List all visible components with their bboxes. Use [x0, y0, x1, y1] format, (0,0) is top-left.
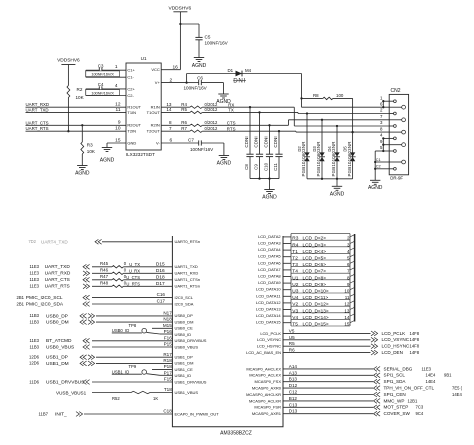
C3 value label	[86, 71, 120, 77]
svg-text:U1: U1	[292, 275, 298, 281]
svg-text:14F8: 14F8	[410, 344, 420, 349]
svg-text:LCD_PCLK: LCD_PCLK	[260, 331, 281, 336]
capacitor C6	[184, 75, 224, 94]
svg-text:0/2012: 0/2012	[205, 120, 218, 125]
svg-text:TPH_VH_ON_OFF_CTL: TPH_VH_ON_OFF_CTL	[384, 386, 435, 391]
node LCD_DATA2 row	[258, 234, 354, 242]
svg-text:6: 6	[347, 262, 350, 267]
svg-text:100NF/16V: 100NF/16V	[184, 86, 208, 91]
svg-text:4: 4	[347, 249, 350, 254]
svg-text:T5: T5	[292, 322, 298, 328]
svg-text:USB0_DM: USB0_DM	[175, 319, 194, 324]
node LCD_DATA6 row	[258, 260, 354, 268]
svg-text:4: 4	[115, 83, 118, 89]
svg-text:R5: R5	[289, 341, 295, 346]
svg-text:R3: R3	[87, 143, 93, 148]
svg-text:USB0_ID: USB0_ID	[112, 328, 129, 333]
svg-text:D15: D15	[156, 262, 165, 268]
svg-text:LCD_D<3>: LCD_D<3>	[303, 242, 327, 247]
svg-text:LCD_D<8>: LCD_D<8>	[303, 275, 327, 280]
wire VCC16 riser	[161, 24, 180, 70]
net USB0_DM	[30, 317, 194, 326]
svg-text:MMC_WP: MMC_WP	[384, 398, 405, 403]
svg-text:UART1_RXD: UART1_RXD	[175, 271, 199, 276]
capacitor C7	[161, 138, 224, 156]
svg-text:C7: C7	[188, 138, 194, 143]
svg-text:C18: C18	[163, 409, 172, 414]
svg-text:USB1_DRVVBUS: USB1_DRVVBUS	[175, 379, 207, 384]
svg-text:LCD_HSYNC: LCD_HSYNC	[382, 344, 411, 349]
net MOT_STEP	[254, 402, 424, 409]
svg-text:10: 10	[344, 289, 350, 294]
resistor R45 (UART_TXD row)	[30, 261, 198, 270]
svg-text:F16: F16	[164, 335, 172, 340]
svg-text:U5: U5	[289, 335, 295, 340]
svg-text:7: 7	[169, 126, 172, 131]
net INIT_	[39, 409, 220, 418]
svg-text:AGND: AGND	[330, 192, 345, 198]
svg-text:UART_TXD: UART_TXD	[26, 107, 49, 112]
net USB1_DM	[29, 358, 193, 367]
CN2 shield pin C2	[374, 165, 396, 170]
svg-text:10: 10	[115, 126, 121, 132]
svg-text:14E4: 14E4	[426, 379, 436, 384]
svg-text:U_TX: U_TX	[129, 262, 140, 267]
svg-text:7C3: 7C3	[416, 405, 424, 410]
svg-text:R2OUT: R2OUT	[127, 123, 141, 128]
svg-text:USB0_ID: USB0_ID	[175, 332, 192, 337]
svg-text:C11: C11	[273, 163, 278, 171]
svg-text:AGND: AGND	[217, 160, 232, 166]
svg-text:T2IN: T2IN	[127, 129, 136, 134]
ground AGND (R3)	[75, 166, 90, 177]
wire CN2 pin5 ground	[375, 151, 389, 180]
svg-text:USB1_DP: USB1_DP	[175, 355, 194, 360]
svg-text:LCD_D<15>: LCD_D<15>	[303, 322, 329, 327]
net LCD_HSYNC	[257, 341, 420, 348]
svg-text:LCD_DATA4: LCD_DATA4	[258, 247, 281, 252]
svg-text:B12: B12	[289, 396, 298, 401]
TVS diode D4 PGB1010603NR	[327, 125, 340, 179]
net LCD_DEN	[246, 348, 420, 355]
svg-text:I2C0_SDA: I2C0_SDA	[175, 301, 194, 306]
svg-text:LCD_DATA15: LCD_DATA15	[256, 320, 282, 325]
svg-text:1K: 1K	[153, 396, 158, 401]
svg-text:LCD_DATA12: LCD_DATA12	[256, 300, 282, 305]
svg-text:USB0_DP: USB0_DP	[175, 313, 194, 318]
net COVER_SW	[252, 409, 424, 416]
svg-text:12D6: 12D6	[29, 361, 40, 366]
svg-text:100NF/16V: 100NF/16V	[205, 41, 229, 46]
svg-text:T2OUT: T2OUT	[147, 129, 161, 134]
svg-text:7: 7	[347, 269, 350, 274]
node LCD_DATA7 row	[258, 267, 354, 275]
svg-text:USB0_CE: USB0_CE	[175, 326, 194, 331]
svg-text:11B3: 11B3	[30, 344, 40, 349]
svg-text:R45: R45	[100, 261, 109, 266]
svg-text:P16: P16	[164, 329, 173, 334]
svg-text:UART1_RTSn: UART1_RTSn	[175, 284, 200, 289]
svg-text:LCD_DEN: LCD_DEN	[382, 350, 403, 355]
svg-text:LCD_D<11>: LCD_D<11>	[303, 295, 329, 300]
svg-text:C5: C5	[205, 35, 211, 40]
svg-text:14E4: 14E4	[426, 373, 436, 378]
svg-text:12B1: 12B1	[408, 398, 418, 403]
node LCD_DATA9 row	[258, 280, 354, 288]
CN2 pin numbers	[380, 95, 383, 150]
resistor R8	[302, 93, 353, 100]
svg-text:UART4_TXD: UART4_TXD	[41, 239, 68, 244]
capacitor C4	[86, 82, 126, 95]
svg-text:V4: V4	[292, 315, 298, 321]
svg-text:C9: C9	[254, 164, 259, 170]
svg-text:DR-9F: DR-9F	[390, 175, 403, 180]
svg-text:SPI1_SDA: SPI1_SDA	[384, 379, 407, 384]
svg-text:DNI: DNI	[233, 77, 246, 84]
svg-text:11E3: 11E3	[30, 277, 40, 282]
svg-text:LCD_DATA14: LCD_DATA14	[256, 313, 282, 318]
svg-text:D18: D18	[156, 275, 165, 281]
net SPI1_SCL	[249, 370, 452, 377]
svg-text:P18: P18	[164, 364, 173, 369]
svg-text:T1OUT: T1OUT	[147, 110, 161, 115]
svg-text:100NF/16V/X: 100NF/16V/X	[91, 90, 114, 95]
node LCD_DATA13 row	[256, 307, 355, 315]
power VDDSHV6 net (top)	[169, 5, 192, 24]
net BT_ATCMD	[30, 335, 207, 344]
node LCD_DATA5 row	[258, 254, 354, 262]
net UART_RXD	[26, 102, 127, 107]
svg-text:V2: V2	[292, 302, 298, 308]
resistor R52 / net VUSB_VBUS1	[56, 387, 198, 401]
svg-text:MCASP0_AXR0: MCASP0_AXR0	[252, 386, 282, 391]
processor AM3358BZCZ body	[172, 236, 283, 436]
svg-text:C13: C13	[289, 402, 298, 407]
svg-text:10K: 10K	[76, 95, 85, 100]
U1 pin names	[127, 67, 160, 145]
svg-text:UART_CTS: UART_CTS	[45, 277, 70, 283]
svg-text:MCASP0_ACLKR: MCASP0_ACLKR	[249, 398, 281, 403]
capacitor C5	[195, 35, 228, 58]
svg-text:1: 1	[115, 64, 118, 70]
svg-text:D16: D16	[156, 268, 165, 274]
net USB0_VBUS	[30, 342, 199, 351]
svg-text:MCASP0_AHCLKR: MCASP0_AHCLKR	[246, 392, 281, 397]
net USB1_DP	[29, 352, 193, 361]
svg-text:MCASP0_AHCLKX: MCASP0_AHCLKX	[246, 366, 281, 371]
svg-text:M4: M4	[245, 68, 252, 73]
svg-text:C1+: C1+	[127, 68, 135, 73]
wire R2 to RTS	[67, 98, 69, 132]
C4 value label	[86, 90, 120, 96]
svg-text:LCD_DATA13: LCD_DATA13	[256, 307, 282, 312]
net UART_CTS	[26, 120, 127, 125]
ground AGND (C8-C11)	[262, 179, 277, 201]
svg-text:MCASP0_FSX: MCASP0_FSX	[255, 379, 282, 384]
bus LCD_D vertical	[354, 234, 356, 322]
svg-text:MCASP0_FSR: MCASP0_FSR	[254, 405, 281, 410]
svg-text:LCD_D<4>: LCD_D<4>	[303, 249, 327, 254]
svg-text:LCD_VSYNC: LCD_VSYNC	[382, 337, 410, 342]
svg-text:D17: D17	[156, 281, 165, 287]
net PMIC_I2C0_SCL	[17, 292, 194, 301]
svg-text:ECAP0_IN_PWM0_OUT: ECAP0_IN_PWM0_OUT	[175, 411, 220, 416]
net UART4_TXD (off-page)	[28, 239, 200, 244]
svg-text:B13: B13	[289, 377, 298, 382]
net RTS	[202, 126, 389, 132]
U1 pin numbers	[115, 64, 178, 144]
IC U1 ILX3232TSDT body	[126, 56, 161, 157]
net LCD_VSYNC	[257, 335, 420, 342]
svg-text:USB0_DRVVBUS: USB0_DRVVBUS	[175, 338, 207, 343]
svg-text:C1: C1	[376, 158, 381, 162]
svg-text:LCD_D<12>: LCD_D<12>	[303, 302, 329, 307]
svg-text:V-: V-	[156, 140, 160, 145]
svg-text:LCD_D<14>: LCD_D<14>	[303, 315, 329, 320]
ground AGND (C7)	[217, 156, 232, 167]
svg-text:13: 13	[344, 308, 350, 313]
svg-text:P15: P15	[164, 342, 173, 347]
svg-text:14F8: 14F8	[410, 350, 420, 355]
svg-text:U4: U4	[292, 295, 298, 301]
svg-text:V3: V3	[292, 308, 298, 314]
resistor R7	[161, 126, 218, 133]
resistor R3	[81, 124, 96, 165]
net TPH_VH_ON_OFF_CTL	[252, 383, 463, 390]
svg-text:R46: R46	[100, 267, 109, 272]
svg-text:R17: R17	[163, 352, 172, 357]
svg-text:3: 3	[347, 242, 350, 247]
node LCD_DATA3 row	[258, 241, 354, 249]
svg-text:T2: T2	[292, 256, 298, 262]
capacitor C9 (DNI)	[254, 111, 263, 178]
svg-text:R52: R52	[112, 396, 120, 401]
svg-text:11E3: 11E3	[30, 264, 40, 269]
wire C5 branch	[180, 24, 199, 37]
node LCD_DATA15 row	[256, 320, 355, 328]
svg-text:F15: F15	[164, 377, 172, 382]
svg-text:C6: C6	[197, 75, 203, 80]
svg-text:LCD_DATA6: LCD_DATA6	[258, 260, 281, 265]
svg-text:VDDSHV6: VDDSHV6	[57, 57, 80, 63]
svg-text:U_RX: U_RX	[129, 268, 140, 273]
net USB0_DP	[30, 311, 194, 320]
svg-text:C8: C8	[244, 164, 249, 170]
node LCD_DATA8 row	[258, 274, 354, 282]
svg-text:15: 15	[115, 137, 121, 143]
node LCD_DATA12 row	[256, 300, 355, 308]
svg-text:AGND: AGND	[75, 170, 90, 176]
resistor R4	[161, 102, 218, 109]
svg-text:AGND: AGND	[192, 63, 207, 69]
svg-text:C2-: C2-	[127, 93, 134, 98]
net CTS	[202, 121, 288, 126]
wire USB1_CE stub	[152, 364, 193, 372]
svg-text:CDNI: CDNI	[264, 136, 269, 147]
net UART_RTS	[26, 126, 127, 131]
svg-text:CTS: CTS	[227, 121, 236, 126]
svg-text:A14: A14	[289, 364, 298, 369]
svg-text:R47: R47	[100, 274, 109, 279]
svg-text:11E3: 11E3	[30, 284, 40, 289]
net SERIAL_DBG	[246, 364, 431, 371]
svg-text:SERIAL_DBG: SERIAL_DBG	[384, 366, 413, 371]
resistor R5	[161, 107, 218, 114]
svg-text:10K: 10K	[87, 149, 96, 154]
svg-text:TX: TX	[228, 108, 234, 113]
TVS diode D3 PGB1010603NR	[312, 119, 325, 179]
svg-text:PMIC_I2C0_SDA: PMIC_I2C0_SDA	[26, 302, 64, 308]
svg-text:TP9: TP9	[129, 364, 137, 369]
svg-text:C17: C17	[157, 299, 166, 304]
wire TVS ground bus	[307, 178, 353, 180]
node LCD_DATA11 row	[256, 293, 354, 301]
node LCD_DATA14 row	[256, 313, 355, 321]
svg-text:T1IN: T1IN	[127, 110, 136, 115]
svg-text:I2C0_SCL: I2C0_SCL	[175, 295, 194, 300]
svg-text:BT_ATCMD: BT_ATCMD	[46, 338, 72, 344]
svg-text:PGB1010603NR: PGB1010603NR	[316, 141, 321, 176]
svg-text:U1: U1	[141, 56, 147, 61]
svg-text:R7: R7	[181, 126, 187, 131]
svg-text:USB1_CE: USB1_CE	[175, 367, 194, 372]
svg-text:PGB1010603NR: PGB1010603NR	[331, 141, 336, 176]
svg-text:AGND: AGND	[100, 158, 115, 164]
wire R8 to pin8 line	[351, 98, 353, 133]
svg-text:R48: R48	[100, 280, 109, 285]
svg-text:16: 16	[173, 64, 179, 70]
svg-text:14F8: 14F8	[410, 331, 420, 336]
svg-text:C12: C12	[289, 390, 298, 395]
svg-text:CDNI: CDNI	[273, 136, 278, 147]
svg-text:LCD_D<6>: LCD_D<6>	[303, 262, 327, 267]
wire RX jog to pin3	[294, 107, 389, 126]
net SPI1_CEN	[246, 390, 462, 397]
svg-text:GND: GND	[127, 140, 136, 145]
power VDDSHV6 net (left)	[57, 57, 80, 85]
svg-text:11: 11	[116, 107, 121, 113]
svg-text:USB0_VBUS: USB0_VBUS	[46, 344, 74, 350]
svg-text:14: 14	[166, 107, 172, 112]
svg-text:R2IN: R2IN	[151, 123, 160, 128]
svg-text:R5: R5	[181, 107, 187, 112]
svg-text:LCD_D<9>: LCD_D<9>	[303, 282, 327, 287]
svg-text:VUSB_VBUS1: VUSB_VBUS1	[56, 390, 87, 395]
svg-text:COVER_SW: COVER_SW	[384, 411, 411, 416]
svg-text:USB1_DM: USB1_DM	[46, 361, 69, 367]
svg-text:MCASP0_AXR1: MCASP0_AXR1	[252, 411, 282, 416]
svg-text:9: 9	[118, 120, 121, 126]
svg-text:USB1_DM: USB1_DM	[175, 361, 194, 366]
svg-text:USB0_DM: USB0_DM	[46, 320, 69, 326]
wire CN2 pin1-pin6 tie	[382, 100, 389, 108]
svg-text:USB0_DP: USB0_DP	[46, 313, 68, 319]
svg-text:AM3358BZCZ: AM3358BZCZ	[220, 430, 252, 436]
svg-text:V5: V5	[289, 328, 295, 333]
svg-text:12: 12	[115, 102, 121, 108]
wire M4 drop	[300, 74, 389, 108]
resistor R2	[67, 86, 85, 101]
svg-text:11E3: 11E3	[30, 338, 40, 343]
svg-text:PGB1010603NR: PGB1010603NR	[347, 141, 352, 176]
ground AGND (CN2 shield)	[368, 180, 383, 191]
node R2/UART_RTS	[67, 130, 69, 132]
ground AGND (U1 pin15)	[100, 143, 126, 164]
svg-text:UART_CTS: UART_CTS	[26, 120, 49, 125]
svg-text:INIT_: INIT_	[55, 411, 67, 417]
svg-text:R6: R6	[289, 348, 295, 353]
svg-text:11D6: 11D6	[29, 379, 39, 384]
svg-text:TP8: TP8	[129, 323, 137, 328]
svg-text:LCD_D<7>: LCD_D<7>	[303, 269, 327, 274]
svg-text:LCD_DATA10: LCD_DATA10	[256, 287, 282, 292]
svg-text:UART_RTS: UART_RTS	[26, 126, 49, 131]
svg-text:14: 14	[344, 315, 350, 320]
svg-text:USB1_DP: USB1_DP	[46, 355, 68, 361]
svg-text:T18: T18	[164, 387, 172, 392]
svg-text:D1: D1	[228, 68, 234, 73]
svg-text:5: 5	[347, 256, 350, 261]
svg-text:C2+: C2+	[127, 86, 135, 91]
svg-text:T1: T1	[292, 249, 298, 255]
svg-text:2B1: 2B1	[17, 295, 25, 300]
svg-text:7D2: 7D2	[28, 239, 36, 244]
svg-text:D13: D13	[289, 409, 298, 414]
svg-text:M15: M15	[163, 323, 172, 328]
svg-text:USB1_ID: USB1_ID	[175, 373, 192, 378]
svg-text:USB1_DRVVBUS: USB1_DRVVBUS	[46, 379, 84, 385]
svg-text:8: 8	[169, 120, 172, 125]
svg-text:V+: V+	[155, 80, 161, 85]
node LCD_DATA10 row	[256, 287, 355, 295]
resistor R47 (UART_CTS row)	[30, 274, 200, 283]
net UART_TXD	[26, 107, 127, 112]
svg-text:USB1_ID: USB1_ID	[112, 370, 129, 375]
svg-text:ILX3232TSDT: ILX3232TSDT	[126, 152, 155, 157]
net RX	[202, 102, 294, 107]
svg-text:LCD_D<5>: LCD_D<5>	[303, 256, 327, 261]
wire CTS jog to pin7	[289, 120, 390, 126]
wire USB0_CE stub	[152, 323, 193, 331]
svg-text:SPI1_CEN: SPI1_CEN	[384, 392, 406, 397]
svg-text:D12: D12	[289, 383, 298, 388]
CN2 shield pin C1	[374, 158, 405, 164]
svg-text:UART_TXD: UART_TXD	[45, 264, 71, 270]
node junction VDDSHV6/C5	[179, 23, 181, 25]
svg-text:LCD_HSYNC: LCD_HSYNC	[257, 344, 281, 349]
svg-text:CDNI: CDNI	[244, 136, 249, 147]
wire V+ node	[161, 74, 188, 84]
wire C8-C11 ground bus	[250, 177, 279, 179]
net MMC_WP	[249, 396, 418, 403]
capacitor C3	[86, 63, 126, 77]
wire CN2 pin4-pin9-pin5 tie	[382, 137, 389, 152]
svg-text:15: 15	[344, 322, 350, 327]
svg-text:LCD_DATA9: LCD_DATA9	[258, 280, 281, 285]
svg-text:LCD_D<2>: LCD_D<2>	[303, 236, 327, 241]
diode D1	[228, 68, 252, 76]
svg-text:9C4: 9C4	[416, 411, 424, 416]
svg-text:UART_RTS: UART_RTS	[45, 284, 70, 290]
svg-text:MCASP0_ACLKX: MCASP0_ACLKX	[249, 373, 281, 378]
svg-text:CDNI: CDNI	[254, 136, 259, 147]
svg-text:LCD_D<13>: LCD_D<13>	[303, 308, 329, 313]
svg-text:R4: R4	[292, 242, 298, 248]
svg-text:100NF/16V: 100NF/16V	[190, 147, 214, 152]
LCD bus label grid	[291, 234, 350, 326]
svg-text:14F8: 14F8	[410, 337, 420, 342]
capacitor C11 (DNI)	[273, 130, 282, 179]
